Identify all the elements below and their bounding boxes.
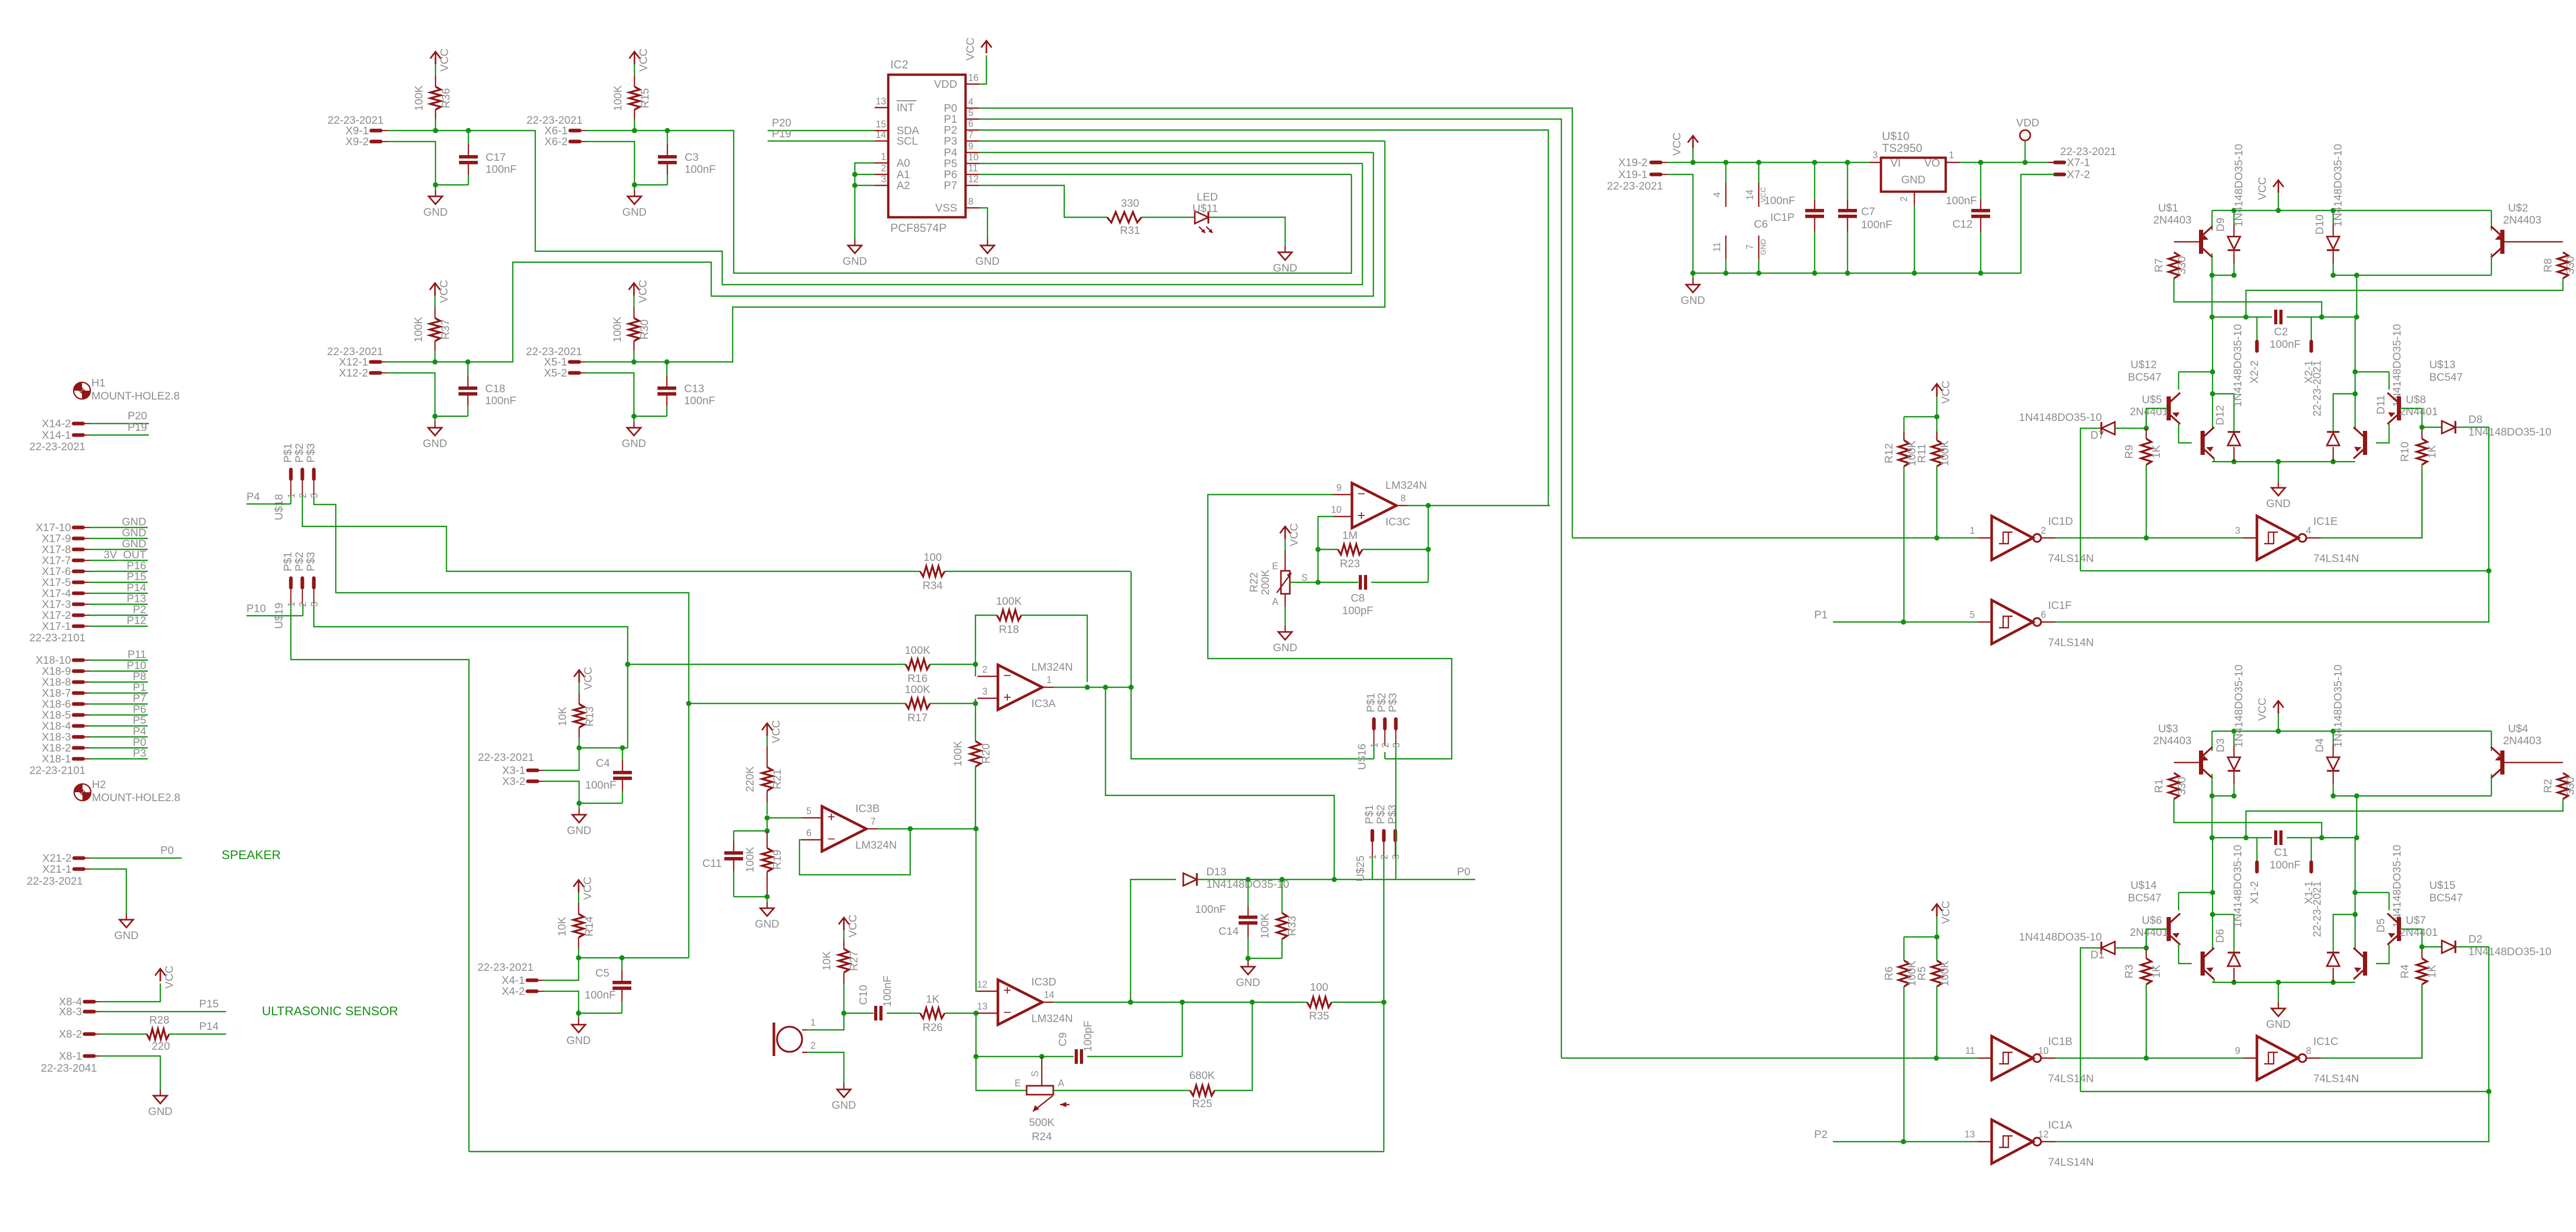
svg-text:8: 8	[2306, 1046, 2311, 1056]
svg-text:1N4148DO35-10: 1N4148DO35-10	[2391, 324, 2403, 407]
svg-text:X8-2: X8-2	[59, 1028, 82, 1040]
svg-text:1N4148DO35-10: 1N4148DO35-10	[2232, 845, 2244, 928]
svg-text:GND: GND	[622, 438, 646, 450]
svg-text:R18: R18	[999, 624, 1019, 636]
svg-text:X4-1: X4-1	[502, 975, 525, 987]
svg-text:C13: C13	[684, 383, 704, 395]
svg-text:X18-1: X18-1	[42, 753, 71, 765]
svg-text:22-23-2021: 22-23-2021	[29, 441, 85, 453]
svg-text:1K: 1K	[2150, 965, 2162, 978]
svg-text:74LS14N: 74LS14N	[2048, 1073, 2094, 1085]
svg-text:INT: INT	[897, 102, 914, 114]
svg-text:D9: D9	[2215, 218, 2227, 232]
svg-text:LED: LED	[1197, 191, 1218, 203]
svg-text:16: 16	[968, 73, 979, 83]
svg-text:VO: VO	[1924, 157, 1940, 169]
svg-text:IC1E: IC1E	[2313, 515, 2338, 527]
svg-text:VCC: VCC	[582, 877, 594, 900]
svg-text:X17-5: X17-5	[42, 577, 71, 589]
svg-text:−: −	[1003, 667, 1011, 683]
svg-text:GND: GND	[567, 1035, 591, 1047]
svg-text:P0: P0	[944, 102, 957, 114]
svg-text:D1: D1	[2090, 949, 2104, 961]
svg-text:P11: P11	[127, 649, 146, 661]
svg-text:12: 12	[968, 174, 979, 184]
svg-text:100nF: 100nF	[1946, 195, 1977, 207]
svg-text:74LS14N: 74LS14N	[2048, 553, 2094, 565]
svg-text:A: A	[1272, 596, 1278, 607]
svg-text:D13: D13	[1206, 866, 1227, 878]
svg-text:13: 13	[1965, 1129, 1975, 1140]
svg-text:A2: A2	[897, 180, 910, 192]
svg-text:100: 100	[923, 552, 942, 564]
svg-text:P4: P4	[246, 491, 260, 503]
svg-text:6: 6	[806, 828, 811, 838]
svg-text:+: +	[1003, 982, 1011, 998]
svg-text:VCC: VCC	[964, 38, 977, 61]
svg-text:1N4148DO35-10: 1N4148DO35-10	[2332, 144, 2344, 227]
svg-text:U$25: U$25	[1355, 855, 1367, 882]
svg-text:200K: 200K	[1260, 569, 1272, 595]
svg-text:R21: R21	[771, 769, 783, 790]
svg-text:D10: D10	[2314, 215, 2326, 235]
svg-text:P1: P1	[1814, 609, 1828, 621]
svg-text:100K: 100K	[996, 595, 1021, 607]
svg-text:100K: 100K	[744, 847, 756, 872]
svg-text:P5: P5	[133, 714, 146, 726]
svg-text:P16: P16	[127, 560, 146, 572]
svg-text:U$15: U$15	[2429, 879, 2455, 891]
svg-text:13: 13	[876, 96, 886, 107]
svg-text:GND: GND	[1273, 262, 1298, 274]
svg-text:R25: R25	[1192, 1098, 1213, 1110]
svg-text:GND: GND	[148, 1106, 173, 1118]
svg-text:74LS14N: 74LS14N	[2048, 1156, 2094, 1168]
svg-text:6: 6	[968, 119, 973, 129]
svg-text:3: 3	[881, 174, 886, 184]
svg-text:X4-2: X4-2	[502, 985, 525, 998]
svg-text:IC3C: IC3C	[1385, 516, 1410, 528]
svg-text:3: 3	[2235, 525, 2240, 536]
svg-text:X18-9: X18-9	[42, 665, 71, 677]
svg-text:D5: D5	[2375, 919, 2387, 933]
svg-text:7: 7	[871, 816, 876, 827]
svg-text:R36: R36	[440, 88, 452, 109]
svg-text:11: 11	[1965, 1046, 1975, 1056]
svg-text:U$7: U$7	[2406, 914, 2426, 926]
svg-text:X21-2: X21-2	[42, 852, 72, 864]
svg-text:VCC: VCC	[1288, 523, 1300, 546]
svg-text:8: 8	[1401, 493, 1406, 503]
svg-text:P15: P15	[199, 998, 218, 1010]
svg-text:BC547: BC547	[2429, 892, 2463, 904]
svg-text:8: 8	[968, 196, 973, 207]
svg-text:1: 1	[1949, 150, 1954, 160]
svg-text:100nF: 100nF	[1861, 219, 1892, 231]
svg-text:22-23-2021: 22-23-2021	[1607, 180, 1663, 192]
svg-text:LM324N: LM324N	[1385, 479, 1427, 491]
svg-text:IC1C: IC1C	[2313, 1036, 2338, 1048]
svg-text:100pF: 100pF	[1082, 1020, 1094, 1052]
svg-text:100nF: 100nF	[486, 163, 517, 175]
svg-text:2: 2	[881, 163, 886, 173]
svg-text:GND: GND	[975, 255, 1000, 267]
svg-text:9: 9	[2235, 1046, 2240, 1056]
svg-text:X2-2: X2-2	[2249, 360, 2261, 383]
svg-text:R35: R35	[1309, 1010, 1330, 1022]
svg-text:1: 1	[881, 151, 886, 162]
svg-text:X9-2: X9-2	[346, 136, 369, 148]
svg-text:X18-6: X18-6	[42, 698, 71, 710]
svg-text:74LS14N: 74LS14N	[2313, 553, 2359, 565]
svg-text:LM324N: LM324N	[1031, 661, 1073, 673]
svg-text:X8-3: X8-3	[59, 1006, 82, 1018]
svg-text:GND: GND	[423, 438, 448, 450]
svg-text:2N4403: 2N4403	[2503, 735, 2542, 747]
svg-text:P$1: P$1	[1365, 693, 1377, 712]
svg-text:X5-1: X5-1	[544, 356, 567, 368]
svg-text:100K: 100K	[413, 316, 425, 342]
svg-text:P3: P3	[944, 135, 957, 147]
svg-text:100K: 100K	[904, 644, 930, 656]
svg-text:P7: P7	[133, 693, 146, 705]
svg-text:R12: R12	[1883, 443, 1895, 464]
svg-text:IC1D: IC1D	[2048, 515, 2073, 527]
svg-text:C5: C5	[595, 967, 609, 979]
svg-text:P0: P0	[1457, 866, 1471, 878]
svg-text:22-23-2101: 22-23-2101	[29, 632, 85, 644]
svg-text:100K: 100K	[612, 85, 624, 111]
svg-text:1: 1	[810, 1017, 816, 1028]
svg-text:R31: R31	[1120, 225, 1140, 237]
svg-text:P19: P19	[127, 421, 147, 433]
svg-text:3: 3	[982, 686, 987, 697]
svg-text:1N4148DO35-10: 1N4148DO35-10	[2232, 324, 2244, 407]
svg-text:P4: P4	[133, 725, 146, 737]
svg-text:VCC: VCC	[2256, 698, 2268, 721]
svg-text:100pF: 100pF	[1342, 605, 1373, 617]
svg-text:U$10: U$10	[1882, 130, 1910, 143]
svg-text:C2: C2	[2274, 326, 2288, 338]
svg-text:P3: P3	[133, 747, 146, 759]
svg-text:R7: R7	[2153, 259, 2165, 273]
svg-text:330: 330	[2176, 256, 2188, 274]
svg-text:R24: R24	[1032, 1131, 1052, 1143]
svg-text:U$12: U$12	[2131, 359, 2157, 371]
svg-text:R3: R3	[2123, 965, 2135, 979]
svg-text:100: 100	[1310, 981, 1328, 993]
svg-text:D7: D7	[2090, 429, 2104, 441]
svg-text:C12: C12	[1952, 218, 1973, 230]
svg-text:100nF: 100nF	[584, 989, 616, 1001]
svg-text:H1: H1	[91, 377, 105, 389]
svg-text:U$5: U$5	[2142, 394, 2162, 406]
svg-text:SCL: SCL	[897, 135, 918, 147]
svg-text:100nF: 100nF	[684, 395, 715, 407]
svg-text:VCC: VCC	[638, 49, 650, 72]
svg-text:X17-2: X17-2	[42, 609, 71, 621]
svg-text:R27: R27	[848, 951, 860, 971]
svg-text:VCC: VCC	[439, 49, 451, 72]
svg-text:R15: R15	[639, 88, 651, 109]
svg-text:−: −	[827, 831, 835, 847]
svg-text:X17-7: X17-7	[42, 555, 71, 567]
svg-text:P15: P15	[127, 571, 146, 583]
svg-text:22-23-2021: 22-23-2021	[477, 961, 533, 973]
svg-text:P20: P20	[127, 410, 147, 422]
svg-text:1: 1	[1046, 675, 1052, 685]
svg-text:14: 14	[876, 130, 886, 140]
svg-text:14: 14	[1745, 190, 1755, 200]
svg-text:C10: C10	[857, 985, 869, 1005]
svg-text:P$1: P$1	[1363, 805, 1375, 824]
svg-text:15: 15	[876, 119, 886, 130]
svg-text:U$6: U$6	[2142, 914, 2162, 926]
svg-text:1K: 1K	[926, 993, 939, 1005]
svg-text:S: S	[1301, 572, 1308, 583]
svg-text:P$3: P$3	[305, 552, 317, 571]
svg-text:IC3B: IC3B	[855, 803, 880, 815]
svg-text:2N4403: 2N4403	[2153, 214, 2192, 226]
svg-text:BC547: BC547	[2128, 892, 2161, 904]
svg-text:VCC: VCC	[582, 667, 594, 690]
svg-text:10: 10	[1331, 504, 1342, 515]
svg-text:VCC: VCC	[847, 914, 859, 937]
svg-text:U$18: U$18	[273, 494, 285, 520]
svg-text:100K: 100K	[1939, 440, 1951, 466]
svg-text:X18-10: X18-10	[36, 654, 71, 666]
svg-text:22-23-2021: 22-23-2021	[2060, 146, 2116, 158]
svg-text:X6-1: X6-1	[545, 125, 568, 137]
svg-text:U$14: U$14	[2131, 879, 2157, 891]
svg-text:X3-1: X3-1	[502, 765, 525, 777]
svg-text:P13: P13	[127, 593, 146, 605]
svg-text:C8: C8	[1351, 592, 1365, 604]
svg-text:U$3: U$3	[2158, 723, 2179, 735]
svg-text:22-23-2021: 22-23-2021	[2311, 360, 2323, 416]
svg-text:1: 1	[1970, 525, 1975, 536]
svg-text:ULTRASONIC SENSOR: ULTRASONIC SENSOR	[262, 1004, 398, 1018]
svg-text:P2: P2	[1814, 1129, 1828, 1141]
svg-text:P12: P12	[127, 615, 146, 627]
svg-text:+: +	[1357, 508, 1365, 523]
svg-text:D8: D8	[2468, 414, 2483, 426]
svg-text:X7-2: X7-2	[2067, 169, 2090, 181]
svg-text:P0: P0	[133, 736, 146, 748]
svg-text:R11: R11	[1916, 444, 1928, 463]
svg-text:7: 7	[968, 130, 973, 140]
svg-text:X18-7: X18-7	[42, 687, 71, 699]
svg-text:100K: 100K	[413, 85, 425, 111]
svg-text:74LS14N: 74LS14N	[2048, 637, 2094, 649]
svg-text:R23: R23	[1340, 558, 1360, 570]
svg-text:22-23-2041: 22-23-2041	[41, 1062, 97, 1074]
svg-text:4: 4	[968, 97, 973, 107]
svg-text:VDD: VDD	[934, 78, 957, 90]
svg-text:A0: A0	[897, 157, 910, 169]
svg-text:D2: D2	[2468, 933, 2483, 945]
svg-text:R16: R16	[908, 673, 928, 685]
svg-text:220K: 220K	[744, 766, 756, 792]
svg-text:X17-8: X17-8	[42, 544, 71, 556]
svg-text:LM324N: LM324N	[855, 839, 897, 851]
svg-text:1N4148DO35-10: 1N4148DO35-10	[2233, 665, 2245, 748]
svg-text:5: 5	[1970, 609, 1975, 620]
svg-text:R37: R37	[440, 320, 452, 340]
svg-text:PCF8574P: PCF8574P	[890, 221, 947, 234]
svg-text:100nF: 100nF	[1764, 195, 1795, 207]
svg-text:P5: P5	[944, 158, 957, 170]
svg-text:12: 12	[977, 979, 987, 990]
svg-text:X18-4: X18-4	[42, 720, 71, 732]
svg-text:R33: R33	[1286, 916, 1298, 936]
svg-text:2N4401: 2N4401	[2399, 926, 2438, 938]
svg-text:22-23-2021: 22-23-2021	[327, 346, 383, 358]
svg-text:R9: R9	[2123, 445, 2135, 459]
svg-text:MOUNT-HOLE2.8: MOUNT-HOLE2.8	[92, 792, 180, 804]
svg-text:R8: R8	[2542, 259, 2554, 273]
svg-text:P4: P4	[944, 147, 957, 159]
svg-text:330: 330	[2565, 256, 2576, 274]
svg-text:2: 2	[982, 664, 987, 675]
svg-text:VCC: VCC	[1940, 381, 1952, 404]
svg-text:330: 330	[2565, 777, 2576, 795]
svg-text:2: 2	[2041, 525, 2046, 536]
svg-text:R14: R14	[583, 916, 595, 936]
svg-text:13: 13	[977, 1001, 987, 1012]
svg-text:680K: 680K	[1189, 1070, 1215, 1082]
svg-text:P$1: P$1	[282, 552, 294, 571]
svg-text:X17-3: X17-3	[42, 599, 71, 611]
svg-text:X21-1: X21-1	[42, 863, 72, 875]
svg-text:D11: D11	[2375, 395, 2387, 415]
svg-text:P6: P6	[133, 703, 146, 715]
svg-text:P$2: P$2	[1376, 693, 1388, 712]
svg-text:P14: P14	[199, 1020, 219, 1032]
svg-text:22-23-2021: 22-23-2021	[27, 875, 83, 887]
svg-text:22-23-2021: 22-23-2021	[478, 752, 534, 764]
svg-text:100nF: 100nF	[485, 395, 516, 407]
svg-text:X18-2: X18-2	[42, 742, 71, 754]
svg-text:GND: GND	[122, 538, 146, 550]
svg-text:VSS: VSS	[935, 202, 957, 214]
svg-text:X19-2: X19-2	[1618, 157, 1648, 169]
svg-text:2N4401: 2N4401	[2399, 406, 2438, 418]
svg-text:GND: GND	[622, 206, 647, 218]
svg-text:R26: R26	[923, 1022, 943, 1034]
svg-text:5: 5	[806, 806, 811, 816]
svg-text:P$2: P$2	[293, 443, 305, 463]
svg-text:P$2: P$2	[293, 552, 305, 571]
svg-text:GND: GND	[1681, 295, 1705, 307]
svg-text:11: 11	[1712, 242, 1722, 252]
svg-text:R10: R10	[2399, 442, 2411, 462]
svg-text:X14-1: X14-1	[42, 429, 71, 441]
svg-text:GND: GND	[1901, 174, 1926, 186]
svg-text:X17-10: X17-10	[36, 522, 71, 534]
svg-text:VCC: VCC	[2256, 177, 2268, 200]
svg-text:10K: 10K	[556, 917, 568, 936]
svg-text:X1-2: X1-2	[2249, 881, 2261, 904]
svg-text:U$8: U$8	[2406, 394, 2426, 406]
svg-text:100nF: 100nF	[585, 779, 616, 791]
svg-text:100nF: 100nF	[1195, 904, 1226, 916]
svg-text:P6: P6	[944, 169, 957, 181]
svg-text:2: 2	[810, 1040, 816, 1051]
svg-text:VCC: VCC	[438, 280, 450, 303]
svg-text:R30: R30	[639, 320, 651, 340]
svg-text:IC1P: IC1P	[1770, 212, 1795, 224]
svg-text:10K: 10K	[557, 707, 569, 726]
svg-text:R1: R1	[2153, 779, 2165, 793]
svg-text:X12-2: X12-2	[339, 367, 368, 379]
svg-text:P14: P14	[127, 582, 147, 594]
svg-text:1K: 1K	[2150, 445, 2162, 459]
svg-text:330: 330	[1121, 197, 1139, 209]
svg-text:GND: GND	[114, 930, 139, 942]
svg-text:9: 9	[968, 141, 973, 151]
svg-text:P10: P10	[127, 660, 146, 672]
svg-text:X6-2: X6-2	[545, 136, 568, 148]
svg-text:A1: A1	[897, 169, 910, 181]
svg-text:−: −	[1003, 1004, 1011, 1020]
svg-text:P$3: P$3	[1386, 805, 1398, 824]
svg-text:R22: R22	[1248, 572, 1260, 593]
svg-text:X19-1: X19-1	[1618, 169, 1648, 181]
svg-text:1N4148DO35-10: 1N4148DO35-10	[2019, 931, 2102, 943]
svg-text:100nF: 100nF	[685, 163, 716, 175]
svg-text:11: 11	[968, 163, 978, 173]
svg-text:GND: GND	[755, 918, 780, 930]
svg-text:GND: GND	[2266, 498, 2291, 510]
svg-text:GND: GND	[843, 255, 867, 267]
svg-text:VCC: VCC	[163, 966, 175, 989]
svg-text:5: 5	[968, 108, 973, 118]
svg-text:100K: 100K	[952, 741, 964, 766]
svg-text:6: 6	[2041, 609, 2046, 620]
svg-text:IC1F: IC1F	[2048, 600, 2072, 612]
svg-text:GND: GND	[424, 206, 448, 218]
svg-text:R20: R20	[980, 744, 992, 764]
svg-text:VCC: VCC	[770, 720, 782, 743]
svg-text:C1: C1	[2274, 847, 2288, 859]
svg-text:GND: GND	[1759, 239, 1767, 255]
svg-text:D3: D3	[2215, 738, 2227, 753]
svg-text:1K: 1K	[2426, 965, 2438, 978]
svg-text:P20: P20	[772, 117, 791, 129]
svg-text:2N4401: 2N4401	[2130, 406, 2168, 418]
svg-text:100K: 100K	[611, 316, 624, 342]
svg-text:MOUNT-HOLE2.8: MOUNT-HOLE2.8	[91, 390, 180, 402]
svg-text:12: 12	[2038, 1129, 2049, 1140]
svg-text:4: 4	[1712, 192, 1722, 197]
svg-text:X5-2: X5-2	[544, 367, 567, 379]
svg-text:100nF: 100nF	[2269, 338, 2301, 350]
svg-text:P2: P2	[944, 124, 957, 136]
svg-text:500K: 500K	[1029, 1117, 1054, 1129]
svg-text:22-23-2021: 22-23-2021	[526, 346, 582, 358]
svg-text:X18-3: X18-3	[42, 731, 71, 743]
svg-text:330: 330	[2176, 777, 2188, 795]
svg-text:U$1: U$1	[2158, 202, 2179, 214]
svg-text:P19: P19	[772, 128, 791, 140]
svg-text:X18-8: X18-8	[42, 676, 71, 688]
svg-text:IC2: IC2	[890, 58, 908, 71]
svg-text:1N4148DO35-10: 1N4148DO35-10	[2468, 426, 2551, 438]
svg-text:R4: R4	[2399, 964, 2411, 978]
svg-text:D4: D4	[2314, 738, 2326, 752]
svg-text:2N4403: 2N4403	[2503, 214, 2542, 226]
